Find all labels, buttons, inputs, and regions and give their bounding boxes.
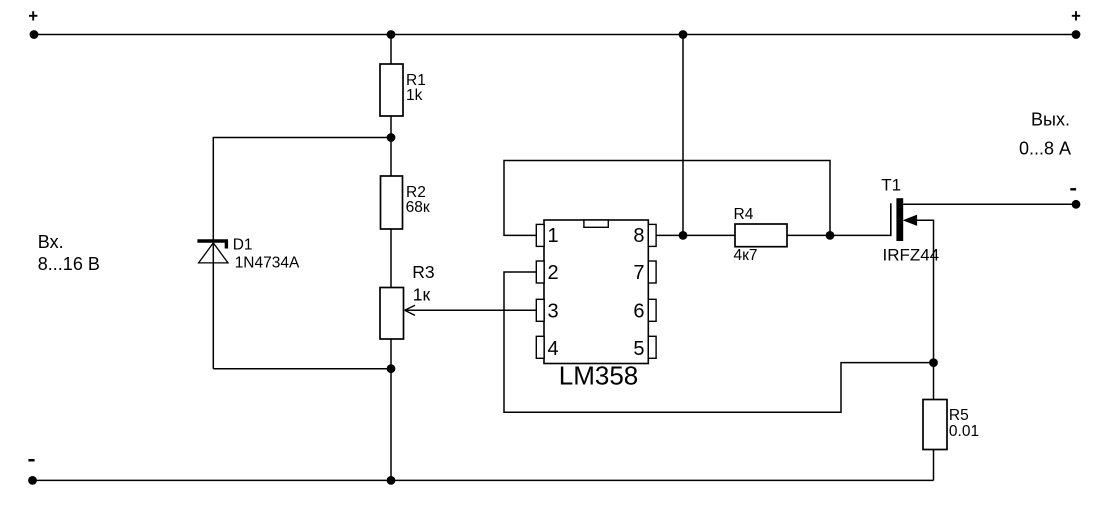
resistor R4 xyxy=(734,206,788,264)
svg-text:3: 3 xyxy=(548,301,559,323)
svg-text:6: 6 xyxy=(633,301,644,323)
junction R1/R2/D1 xyxy=(387,133,396,142)
svg-text:2: 2 xyxy=(548,262,559,284)
wire bottom negative rail xyxy=(33,479,934,481)
wire D1 bottom to junction xyxy=(213,368,391,370)
R3 wiper arrowhead xyxy=(405,305,415,315)
pin 3 xyxy=(536,299,544,321)
svg-text:68к: 68к xyxy=(406,199,430,216)
junction pin8 wire / V+ drop xyxy=(679,231,688,240)
+ terminal left xyxy=(29,11,38,39)
svg-text:IRFZ44: IRFZ44 xyxy=(883,245,940,264)
svg-text:R4: R4 xyxy=(734,206,754,223)
svg-text:Вых.: Вых. xyxy=(1031,109,1070,129)
svg-text:1к: 1к xyxy=(413,284,431,304)
wire R5 bottom to bottom rail xyxy=(933,450,935,481)
junction top rail / V+ drop xyxy=(679,30,688,39)
resistor R2 xyxy=(381,176,430,229)
wire V+ drop to pin8 wire xyxy=(682,35,684,236)
svg-text:4к7: 4к7 xyxy=(734,247,758,264)
wire D1 branch xyxy=(213,138,391,369)
svg-text:0...8 А: 0...8 А xyxy=(1019,139,1071,159)
wire R4 to gate xyxy=(787,234,891,236)
wire pin1 feedback loop xyxy=(504,161,830,236)
svg-text:4: 4 xyxy=(548,338,559,360)
wire R3 bottom to bottom rail xyxy=(390,339,392,480)
zener diode D1 xyxy=(197,241,228,263)
pin 6 xyxy=(648,299,656,321)
pin 4 xyxy=(536,336,544,358)
wire top positive rail xyxy=(34,34,1076,36)
- terminal right xyxy=(1070,188,1080,209)
potentiometer R3 xyxy=(380,262,435,339)
junction D1 bottom / R3 xyxy=(387,364,396,373)
junction gate / feedback xyxy=(826,231,835,240)
wire R3 wiper to pin 3 xyxy=(405,309,537,311)
svg-text:R3: R3 xyxy=(412,262,434,282)
junction bottom rail xyxy=(387,476,396,485)
svg-text:1k: 1k xyxy=(406,87,423,104)
wire pin8 to R4 xyxy=(656,234,735,236)
resistor R1 xyxy=(380,64,426,116)
wire R1 bottom to R2 top xyxy=(390,116,392,176)
resistor R5 xyxy=(923,400,979,450)
op-amp U1 LM358 body xyxy=(544,220,648,364)
junction sense / source xyxy=(929,358,938,367)
svg-text:R5: R5 xyxy=(949,407,969,424)
pin 2 xyxy=(536,261,544,283)
svg-text:LM358: LM358 xyxy=(559,361,639,391)
svg-text:Вх.: Вх. xyxy=(38,232,64,252)
junction top rail / R1 xyxy=(387,30,396,39)
wire T1 drain to - output xyxy=(903,203,1076,205)
svg-text:7: 7 xyxy=(633,262,644,284)
IC notch xyxy=(584,220,608,227)
transistor T1 xyxy=(891,198,917,241)
wire R2 bottom to R3 top xyxy=(390,229,392,288)
wire R1 branch vertical xyxy=(390,35,392,65)
+ terminal right xyxy=(1072,11,1081,39)
svg-text:D1: D1 xyxy=(233,236,253,253)
pin 8 xyxy=(648,224,656,246)
svg-text:1N4734A: 1N4734A xyxy=(235,255,300,272)
svg-text:5: 5 xyxy=(633,338,644,360)
wire T1 source to R5 xyxy=(915,220,934,399)
svg-text:1: 1 xyxy=(548,225,559,247)
svg-text:8...16 В: 8...16 В xyxy=(38,254,100,274)
wire pin2 sense loop xyxy=(504,272,934,412)
pin 5 xyxy=(648,336,656,358)
pin 7 xyxy=(648,261,656,283)
svg-text:8: 8 xyxy=(633,225,644,247)
- terminal left xyxy=(28,459,37,485)
svg-text:0.01: 0.01 xyxy=(949,423,979,440)
svg-text:T1: T1 xyxy=(881,175,901,194)
pin 1 xyxy=(536,224,544,246)
